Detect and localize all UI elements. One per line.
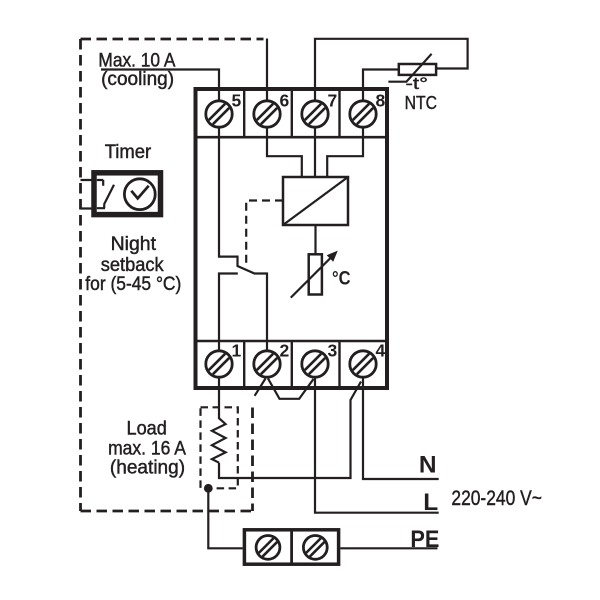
- svg-text:-t°: -t°: [406, 74, 429, 93]
- svg-text:5: 5: [232, 90, 242, 110]
- svg-text:Timer: Timer: [105, 142, 152, 163]
- svg-text:setback: setback: [101, 255, 164, 276]
- svg-text:Night: Night: [111, 234, 157, 255]
- svg-text:NTC: NTC: [405, 93, 438, 113]
- svg-text:3: 3: [328, 341, 338, 361]
- svg-text:8: 8: [376, 90, 386, 110]
- svg-text:7: 7: [328, 90, 338, 110]
- svg-text:2: 2: [280, 341, 290, 361]
- svg-text:(heating): (heating): [110, 457, 185, 478]
- svg-text:L: L: [423, 489, 438, 516]
- svg-text:N: N: [419, 452, 437, 479]
- svg-text:°C: °C: [332, 268, 351, 290]
- svg-text:6: 6: [280, 90, 290, 110]
- svg-text:1: 1: [232, 341, 242, 361]
- svg-text:Load: Load: [127, 419, 167, 440]
- svg-text:220-240 V~: 220-240 V~: [451, 486, 542, 510]
- svg-text:4: 4: [376, 341, 386, 361]
- svg-text:PE: PE: [410, 526, 439, 553]
- svg-text:(cooling): (cooling): [101, 69, 174, 90]
- svg-text:for (5-45 °C): for (5-45 °C): [85, 274, 181, 295]
